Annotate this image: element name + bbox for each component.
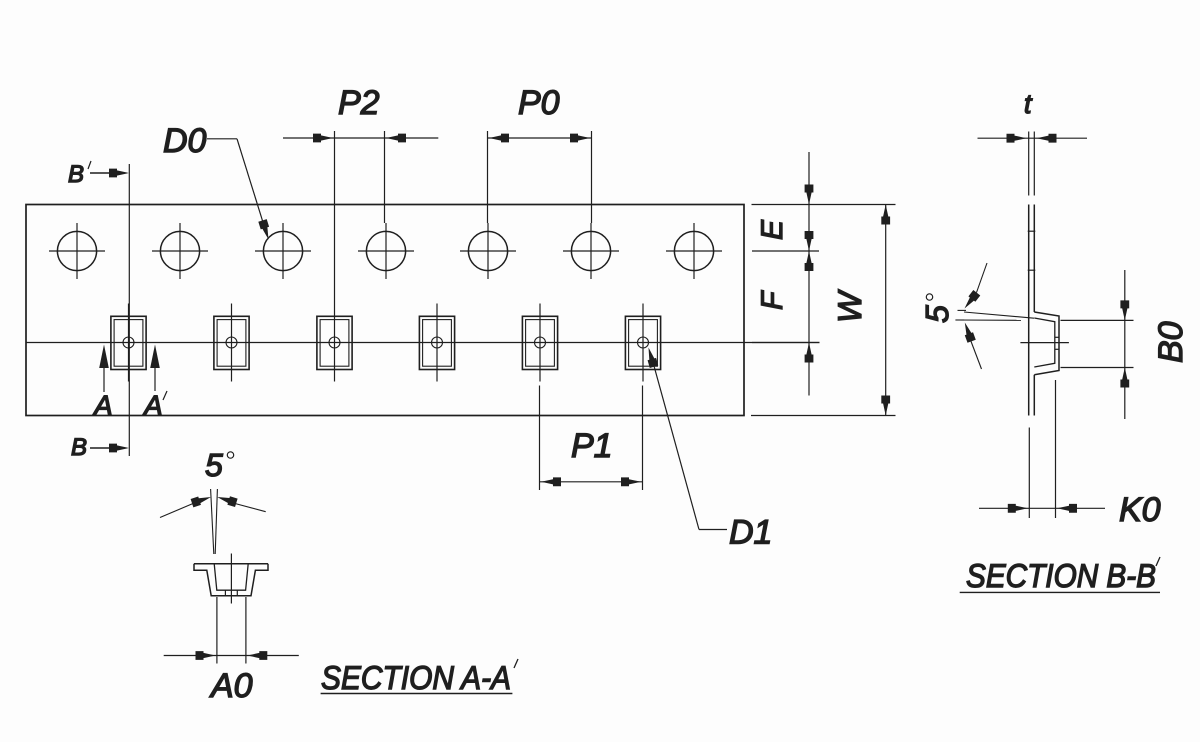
sprocket hole 5 (460, 223, 516, 279)
section arrow A (92, 345, 113, 422)
pocket 1 (111, 304, 146, 382)
svg-text:D1: D1 (729, 514, 772, 552)
section line B-B' vertical (128, 164, 130, 456)
extension stubs right of tape (751, 205, 896, 416)
svg-text:P0: P0 (518, 84, 560, 122)
svg-text:5: 5 (205, 447, 223, 483)
dimension A0 (164, 597, 299, 705)
svg-text:D0: D0 (163, 122, 207, 160)
sprocket hole 7 (666, 223, 722, 279)
sprocket hole 3 (255, 223, 311, 279)
svg-text:B: B (71, 434, 87, 461)
svg-text:SECTION A-A: SECTION A-A (321, 659, 511, 696)
sprocket hole 1 (49, 223, 105, 279)
dimension K0 (979, 380, 1161, 529)
svg-text:A: A (92, 390, 113, 421)
dimension P1 (540, 386, 643, 491)
pocket centerline (26, 342, 820, 344)
svg-text:SECTION B-B: SECTION B-B (966, 557, 1156, 594)
svg-text:A0: A0 (209, 667, 253, 705)
section B-B' tape strip (1028, 205, 1036, 416)
dimension W (831, 205, 890, 416)
sprocket hole 2 (152, 223, 208, 279)
svg-text:P2: P2 (338, 84, 380, 122)
dimension F (756, 231, 813, 363)
svg-text:A: A (142, 390, 163, 421)
label B' with arrow (68, 161, 129, 188)
title SECTION A-A' (321, 659, 518, 696)
svg-text:E: E (756, 219, 789, 240)
svg-text:B0: B0 (1152, 321, 1190, 363)
svg-text:F: F (756, 290, 789, 310)
sprocket hole 6 (563, 223, 619, 279)
dimension P2 (283, 84, 438, 304)
label B with arrow (71, 434, 129, 461)
angle 5 deg (section B-B') (919, 263, 1034, 369)
dimension E (756, 152, 813, 396)
tape outline (26, 205, 744, 416)
angle 5 deg (section A-A') (160, 447, 266, 554)
svg-text:W: W (831, 289, 868, 323)
section arrow A' (142, 345, 167, 422)
dimension t (978, 89, 1088, 196)
leader D1 (644, 346, 772, 551)
pocket 6 (625, 304, 660, 382)
pocket 3 (317, 304, 352, 382)
dimension B0 (1061, 270, 1191, 419)
pocket 5 (522, 304, 557, 382)
pocket 2 (214, 304, 249, 382)
sprocket hole 4 (358, 223, 414, 279)
pocket 4 (419, 304, 454, 382)
leader D0 (163, 122, 273, 241)
svg-text:K0: K0 (1119, 491, 1161, 529)
dimension P0 (488, 84, 592, 223)
svg-text:P1: P1 (571, 427, 613, 465)
svg-text:5: 5 (919, 305, 955, 323)
section B-B' pocket bulge (1020, 312, 1069, 375)
SECTION A-A' pocket profile (194, 554, 268, 604)
title SECTION B-B' (960, 557, 1160, 594)
svg-text:B: B (68, 161, 84, 188)
